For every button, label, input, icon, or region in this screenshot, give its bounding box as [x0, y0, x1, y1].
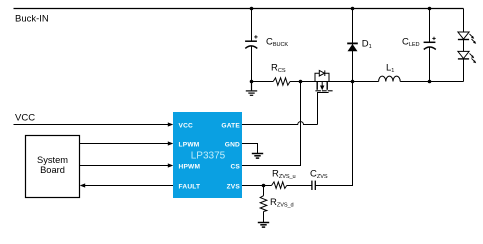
- transistor Q1 body diode loop: [315, 73, 329, 81]
- wire LED branch bottom: [463, 59, 465, 82]
- wire R_ZVS_u to C_ZVS: [287, 185, 312, 187]
- node Buck-IN / C_BUCK top junction: [250, 7, 254, 11]
- plus sign of C_BUCK: [254, 35, 257, 38]
- wire HPWM: [80, 165, 169, 167]
- svg-text:GATE: GATE: [221, 122, 240, 129]
- node D1 top junction: [351, 7, 355, 11]
- diode D1: [352, 9, 354, 82]
- transistor Q1 channel dashes: [315, 90, 332, 92]
- wire LPWM: [80, 143, 169, 145]
- capacitor C_LED: [429, 9, 431, 43]
- inductor L1: [379, 76, 401, 81]
- transistor Q1 body arrow: [321, 82, 323, 87]
- transistor Q1 gate plate: [317, 92, 329, 94]
- wire L1 to right: [400, 81, 463, 83]
- node CS tap junction: [299, 80, 303, 84]
- wire R_CS to MOSFET: [290, 81, 315, 83]
- node C_BUCK bottom junction: [250, 80, 254, 84]
- svg-text:ZVS: ZVS: [227, 184, 241, 191]
- wire ZVS to R_ZVS_u: [242, 185, 272, 187]
- wire VCC input: [14, 124, 169, 126]
- LED D3: [458, 51, 469, 58]
- resistor R_ZVS_d: [263, 186, 265, 196]
- wire through MOSFET: [315, 81, 329, 83]
- svg-text:System: System: [37, 155, 68, 165]
- LED D3 light arrows: [470, 53, 477, 63]
- wire CS: [242, 82, 301, 166]
- resistor R_ZVS_u: [272, 182, 287, 189]
- transistor Q1 body diode symbol: [319, 70, 324, 76]
- svg-text:LP3375: LP3375: [191, 151, 226, 162]
- capacitor C_BUCK: [245, 41, 257, 48]
- transistor Q1 channel structure: [317, 82, 327, 90]
- wire C_ZVS to ZVS node: [315, 82, 352, 186]
- plus sign of C_LED: [432, 37, 435, 40]
- wire between LEDs: [463, 39, 465, 51]
- wire GATE with hop over CS vertical: [242, 122, 318, 125]
- svg-text:VCC: VCC: [15, 113, 35, 124]
- node C_LED top junction: [428, 7, 432, 11]
- svg-text:FAULT: FAULT: [179, 184, 201, 191]
- wire LED branch top: [463, 9, 465, 33]
- wire top rail Buck-IN: [14, 8, 464, 10]
- ground at GND pin: [252, 154, 263, 159]
- svg-text:HPWM: HPWM: [179, 164, 201, 171]
- IC U1 LP3375: [173, 112, 242, 198]
- wire C_BUCK branch upper: [251, 9, 253, 42]
- svg-text:GND: GND: [225, 141, 240, 148]
- ground under R_ZVS_d: [258, 223, 269, 228]
- node ZVS divider junction: [262, 184, 266, 188]
- wire GND: [242, 144, 258, 154]
- wire main node to R_CS: [252, 81, 274, 83]
- node D1 bottom junction: [351, 80, 355, 84]
- node C_LED bottom junction: [428, 80, 432, 84]
- svg-text:Buck-IN: Buck-IN: [15, 14, 49, 25]
- wire FAULT: [85, 185, 174, 187]
- LED D2: [458, 32, 469, 39]
- wire GATE vertical to gate: [317, 93, 319, 125]
- LED D2 light arrows: [470, 34, 477, 44]
- svg-text:CS: CS: [230, 164, 240, 171]
- svg-text:LPWM: LPWM: [179, 141, 200, 148]
- System Board box: [26, 136, 80, 198]
- wire MOSFET to D1 node: [329, 81, 379, 83]
- ground under C_BUCK: [246, 82, 257, 96]
- wire C_BUCK branch lower: [251, 46, 253, 82]
- capacitor C_ZVS: [312, 181, 315, 190]
- resistor R_CS: [273, 78, 290, 85]
- svg-text:Board: Board: [40, 165, 65, 175]
- svg-text:VCC: VCC: [179, 122, 194, 129]
